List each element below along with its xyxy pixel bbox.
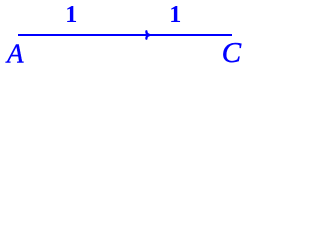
arrowhead mid [146,31,149,38]
svg-text:1: 1 [65,2,77,28]
svg-text:C: C [222,37,242,68]
wire [18,34,232,36]
svg-text:1: 1 [169,2,181,28]
svg-text:A: A [5,39,24,69]
